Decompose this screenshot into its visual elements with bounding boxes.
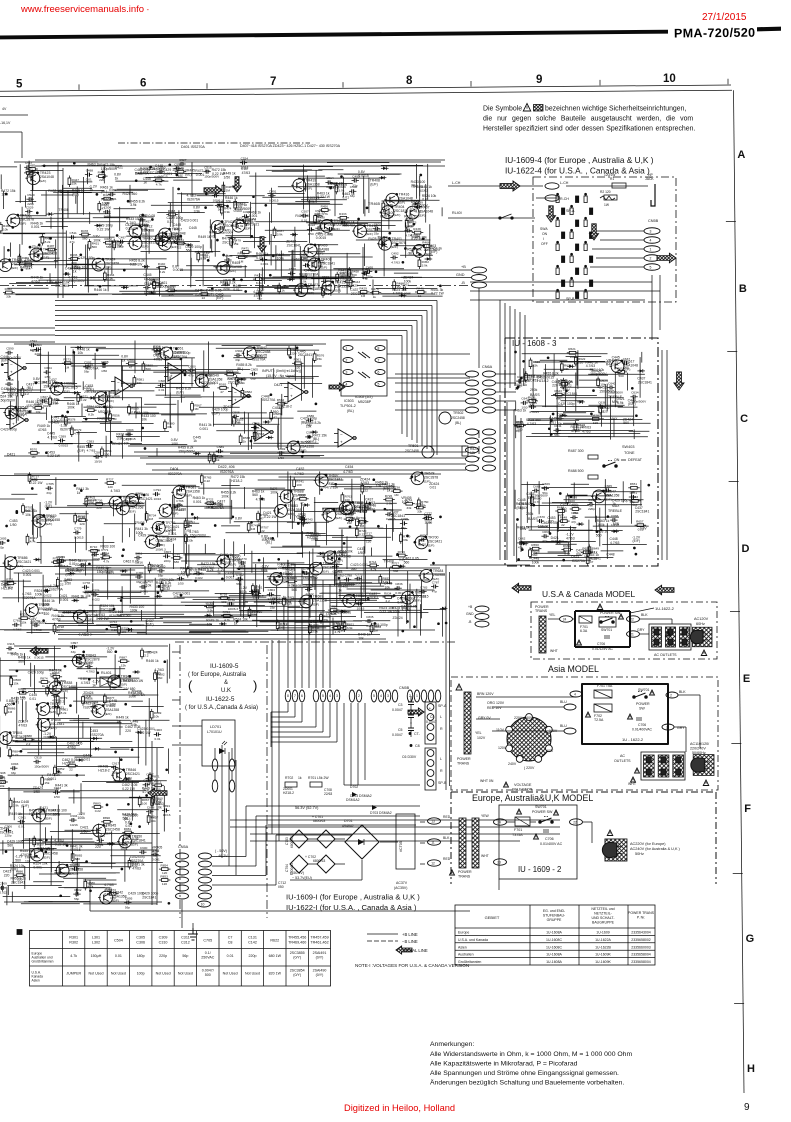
wire	[105, 393, 107, 431]
ruler tick	[206, 83, 208, 89]
wire	[109, 420, 111, 456]
diode D673	[611, 530, 619, 534]
junction	[301, 455, 303, 457]
wire	[532, 433, 561, 435]
wire	[155, 387, 209, 389]
svg-text:1M: 1M	[239, 259, 244, 263]
svg-text:R561: R561	[294, 358, 302, 362]
svg-text:2SC1841: 2SC1841	[148, 171, 162, 175]
svg-text:(E/F): (E/F)	[206, 292, 214, 296]
wire	[102, 536, 104, 550]
svg-text:4.7k: 4.7k	[88, 885, 94, 889]
svg-text:R736: R736	[95, 498, 103, 502]
svg-text:1k: 1k	[585, 554, 589, 558]
wire	[253, 562, 305, 564]
resistor R585 47	[270, 410, 281, 422]
wire	[303, 165, 305, 210]
svg-text:C: C	[740, 413, 748, 425]
wire	[244, 412, 246, 434]
wire	[295, 200, 329, 202]
svg-text:(BL): (BL)	[347, 409, 354, 413]
junction	[552, 413, 554, 415]
svg-text:HZ18-2: HZ18-2	[252, 595, 263, 599]
wire	[310, 222, 368, 224]
wire	[325, 599, 377, 601]
svg-text:C501: C501	[374, 223, 382, 227]
op-amp IC501	[338, 429, 353, 447]
resistor R579 4.7k	[70, 426, 81, 438]
wire	[496, 409, 516, 411]
wire	[173, 544, 175, 569]
switch contact	[584, 292, 587, 299]
svg-text:C601: C601	[35, 343, 43, 347]
connector pin	[483, 380, 496, 386]
svg-text:C787: C787	[432, 580, 440, 584]
wire	[604, 384, 606, 408]
svg-text:+6.3V: +6.3V	[30, 349, 40, 353]
svg-text:bezeichnen wichtige Sicherheit: bezeichnen wichtige Sicherheitseinrichtu…	[545, 106, 686, 113]
connector pin	[466, 447, 479, 453]
junction	[104, 406, 106, 408]
wire	[254, 225, 256, 249]
section tick	[727, 351, 737, 353]
junction	[73, 351, 75, 353]
resistor R476 1k	[370, 287, 382, 299]
svg-text:47/63: 47/63	[31, 279, 40, 283]
switch contact	[590, 280, 593, 287]
wire	[75, 195, 77, 203]
svg-text:MAX: MAX	[610, 417, 618, 421]
junction	[402, 630, 404, 632]
capacitor C493 33p	[352, 174, 360, 187]
svg-text:R749: R749	[206, 601, 214, 605]
svg-text:C910: C910	[34, 756, 42, 760]
wire	[54, 260, 78, 262]
svg-text:BASS: BASS	[528, 517, 538, 521]
wire	[614, 372, 616, 407]
hollow arrow top block	[204, 186, 222, 195]
frame top line	[0, 90, 732, 96]
resistor R713 0.22	[365, 501, 376, 512]
wire	[258, 479, 344, 481]
svg-text:(BL): (BL)	[27, 386, 33, 390]
wire	[85, 590, 168, 592]
svg-text:3.9k: 3.9k	[301, 280, 307, 284]
svg-text:C892: C892	[73, 863, 81, 867]
capacitor C590 150p/500V	[5, 347, 22, 360]
wire	[190, 258, 192, 276]
junction	[29, 411, 31, 413]
svg-text:(E/F): (E/F)	[43, 856, 50, 860]
junction	[142, 427, 144, 429]
wire	[177, 193, 226, 195]
junction	[113, 608, 115, 610]
svg-text:OFF: OFF	[541, 242, 548, 246]
svg-text:1/50: 1/50	[605, 493, 611, 497]
capacitor C664 47p	[570, 511, 578, 524]
wire	[151, 204, 214, 206]
resistor R471 680	[240, 246, 252, 258]
resistor R478 560	[79, 229, 91, 241]
svg-text:Digitized in Heiloo, Holland: Digitized in Heiloo, Holland	[344, 1103, 455, 1113]
svg-text:3.9k: 3.9k	[238, 224, 244, 228]
svg-text:(BL): (BL)	[203, 255, 209, 259]
wire	[301, 256, 373, 258]
wire	[361, 230, 413, 232]
wire	[47, 352, 49, 388]
wire	[233, 357, 266, 359]
resistor R463 1M	[236, 252, 248, 264]
wire	[0, 166, 17, 168]
board boundary dash-dot mid	[0, 285, 471, 287]
svg-text:+: +	[257, 434, 260, 439]
switch contact	[570, 208, 573, 215]
svg-text:33k: 33k	[421, 503, 426, 507]
wire bus	[55, 315, 422, 317]
svg-text:(E/F): (E/F)	[216, 296, 224, 300]
svg-text:(BL): (BL)	[301, 420, 307, 424]
wire	[527, 419, 579, 421]
wire bus	[55, 330, 407, 332]
wire	[163, 622, 192, 624]
svg-text:100: 100	[104, 452, 109, 456]
wire	[162, 590, 210, 592]
wire	[181, 505, 232, 507]
capacitor C790 1/50	[419, 533, 427, 546]
wire	[72, 349, 74, 385]
svg-text:1/50: 1/50	[144, 290, 150, 294]
connector pin	[466, 389, 479, 395]
svg-text:47/63: 47/63	[571, 429, 580, 433]
wire	[280, 251, 282, 278]
section tick	[730, 611, 740, 613]
wire	[344, 173, 400, 175]
svg-text:0.01: 0.01	[217, 454, 223, 458]
svg-text:(E/F): (E/F)	[307, 291, 314, 295]
junction	[547, 357, 549, 359]
switch contact	[562, 256, 565, 263]
svg-text:TR408: TR408	[134, 521, 144, 525]
svg-text:GND: GND	[466, 612, 474, 616]
svg-text:8.2k: 8.2k	[564, 552, 570, 556]
svg-text:47p: 47p	[70, 240, 75, 244]
wire	[181, 560, 225, 562]
capacitor C768 100/6.3	[92, 548, 103, 561]
wire	[4, 554, 6, 587]
wire	[22, 580, 24, 617]
svg-text:C905: C905	[97, 834, 105, 838]
wire	[223, 598, 310, 600]
svg-text:6: 6	[140, 77, 146, 89]
wire	[640, 480, 642, 506]
svg-text:1/50: 1/50	[358, 551, 365, 555]
wire	[129, 568, 131, 604]
capacitor C591 10/16	[29, 339, 38, 352]
ruler tick	[727, 79, 729, 85]
svg-text:TLP501-2: TLP501-2	[340, 404, 356, 408]
power feed +B	[180, 269, 471, 271]
wire	[419, 188, 421, 203]
svg-text:(E/F): (E/F)	[1, 359, 9, 363]
svg-text:1M: 1M	[149, 517, 154, 521]
svg-text:10k: 10k	[146, 583, 152, 587]
svg-text:C593: C593	[87, 439, 95, 443]
wire	[563, 412, 586, 414]
junction	[122, 555, 124, 557]
svg-text:0.001: 0.001	[542, 525, 551, 529]
wire	[203, 350, 205, 391]
wire	[264, 586, 311, 588]
resistor R446 33k	[314, 258, 325, 270]
svg-text:Die Symbole: Die Symbole	[483, 106, 522, 113]
svg-text:0.001: 0.001	[168, 532, 177, 536]
wire	[401, 276, 422, 278]
diode D825	[120, 569, 128, 573]
svg-text:0.22: 0.22	[359, 532, 365, 536]
wire	[169, 376, 171, 422]
wire	[538, 481, 540, 514]
svg-text:R463 1k: R463 1k	[88, 162, 101, 166]
svg-text:(E/F): (E/F)	[142, 244, 149, 248]
svg-text:VR405: VR405	[295, 515, 305, 519]
connector pin 1	[644, 246, 660, 253]
switch contact	[584, 220, 587, 227]
junction	[414, 247, 416, 249]
junction	[214, 525, 216, 527]
wire	[346, 253, 348, 294]
wire	[189, 631, 249, 633]
resistor R704 8.2k	[286, 576, 298, 588]
wire	[633, 397, 635, 426]
wire	[18, 573, 20, 603]
svg-text:D401 ISS270A: D401 ISS270A	[181, 145, 205, 149]
svg-text:4: 4	[346, 383, 348, 387]
svg-text:4.7/63: 4.7/63	[610, 541, 620, 545]
wire	[344, 488, 396, 490]
svg-text:C777: C777	[425, 511, 433, 515]
junction	[378, 525, 380, 527]
wire	[275, 245, 277, 269]
junction	[315, 403, 317, 405]
svg-text:C506: C506	[104, 206, 112, 210]
switch contact	[576, 244, 579, 251]
junction	[207, 260, 209, 262]
wire	[122, 434, 124, 458]
svg-text:C804: C804	[268, 588, 276, 592]
capacitor C597 100/6.3	[305, 431, 316, 444]
svg-text:IS2076A: IS2076A	[23, 596, 37, 600]
svg-text:10k: 10k	[157, 355, 163, 359]
wire	[109, 209, 111, 238]
resistor R426 120	[101, 193, 113, 205]
svg-text:47: 47	[129, 366, 133, 370]
wire	[283, 605, 285, 631]
capacitor C601 220p	[34, 343, 42, 356]
diode D531	[425, 257, 433, 261]
wire	[37, 528, 39, 538]
wire	[375, 502, 397, 504]
resistor R648 22	[558, 516, 570, 528]
svg-text:C514: C514	[326, 176, 334, 180]
wire	[189, 623, 212, 625]
wire	[297, 552, 346, 554]
wire	[387, 353, 470, 355]
connector pin	[483, 398, 496, 404]
connector pin	[475, 606, 489, 612]
resistor R764 1M	[357, 516, 369, 528]
supply rail bottom	[4, 293, 435, 295]
wire	[273, 368, 275, 379]
svg-text:C896: C896	[86, 660, 94, 664]
capacitor C602 1/50	[277, 447, 285, 460]
svg-text:R441 3k: R441 3k	[72, 595, 85, 599]
junction	[233, 279, 235, 281]
wire	[266, 169, 322, 171]
wire	[557, 512, 559, 532]
svg-text:C903: C903	[155, 728, 163, 732]
wire	[25, 196, 27, 208]
wire	[426, 523, 428, 535]
svg-text:8: 8	[378, 347, 380, 351]
junction	[241, 279, 243, 281]
resistor R743 220	[302, 515, 313, 527]
wire	[314, 502, 338, 504]
wire	[92, 358, 180, 360]
wire	[313, 273, 315, 291]
svg-text:C784: C784	[185, 520, 193, 524]
svg-text:10k: 10k	[318, 214, 324, 218]
svg-text:150p/500V: 150p/500V	[52, 419, 69, 423]
wire	[303, 585, 384, 587]
junction	[517, 519, 519, 521]
wire	[557, 412, 559, 435]
svg-text:MAX: MAX	[612, 504, 620, 508]
wire	[553, 432, 640, 434]
wire	[67, 505, 145, 507]
wire	[240, 610, 325, 612]
junction	[158, 586, 160, 588]
svg-text:3.9k: 3.9k	[422, 263, 428, 267]
svg-text:(E/F): (E/F)	[172, 512, 179, 516]
wire	[376, 288, 437, 290]
capacitor C637 1/50	[622, 357, 630, 370]
opto IC503 TLP501-2 box	[341, 340, 387, 396]
wire	[270, 234, 272, 265]
svg-text:0.001: 0.001	[60, 598, 69, 602]
svg-text:4.7/63: 4.7/63	[393, 292, 403, 296]
left bus	[57, 162, 59, 298]
svg-text:10k: 10k	[322, 512, 328, 516]
svg-text:1k: 1k	[104, 824, 108, 828]
junction	[37, 255, 39, 257]
capacitor C781 4.7/63	[12, 619, 22, 632]
svg-text:0.022: 0.022	[306, 592, 314, 596]
svg-text:0.01: 0.01	[261, 568, 268, 572]
svg-text:die nur gegen solche Bauteile: die nur gegen solche Bauteile ausgetausc…	[483, 116, 693, 123]
svg-text:33k: 33k	[318, 264, 323, 268]
resistor R562 120	[275, 398, 287, 410]
wire	[266, 344, 313, 346]
svg-text:1/50: 1/50	[10, 523, 17, 527]
svg-text:22: 22	[561, 523, 565, 527]
capacitor C511 47p	[69, 231, 77, 244]
svg-text:C895: C895	[125, 896, 133, 900]
wire	[399, 239, 431, 241]
svg-text:3: 3	[346, 371, 348, 375]
connector pin R-CH	[545, 195, 559, 201]
svg-text:IS2076A: IS2076A	[174, 355, 188, 359]
svg-text:10k: 10k	[141, 418, 147, 422]
wire	[556, 406, 558, 420]
svg-text:10/16: 10/16	[357, 606, 365, 610]
wire	[256, 365, 321, 367]
svg-text:HZ18-2: HZ18-2	[1, 586, 12, 590]
svg-text:15k: 15k	[21, 620, 26, 624]
wire	[257, 589, 259, 599]
svg-text:220p: 220p	[112, 770, 119, 774]
svg-text:560: 560	[15, 858, 21, 862]
wire	[274, 287, 312, 289]
svg-text:10k: 10k	[137, 381, 142, 385]
capacitor C515 150p/500V	[203, 166, 220, 179]
capacitor C489 0.001	[108, 188, 117, 201]
wire	[282, 566, 315, 568]
svg-text:1: 1	[650, 248, 652, 252]
svg-text:C606: C606	[159, 379, 167, 383]
junction	[591, 413, 593, 415]
wire	[524, 374, 608, 376]
junction	[237, 380, 239, 382]
svg-text:100/6.3: 100/6.3	[178, 492, 189, 496]
wire bus drop	[436, 301, 438, 456]
svg-text:120: 120	[366, 539, 371, 543]
wire	[168, 202, 249, 204]
svg-text:2.2: 2.2	[424, 248, 429, 252]
capacitor C510 0.0015	[157, 166, 168, 179]
svg-text:0.8V: 0.8V	[235, 517, 243, 521]
amplifier block border top	[35, 159, 445, 161]
svg-text:56p: 56p	[554, 433, 559, 437]
wire	[180, 486, 200, 488]
svg-text:3.9k: 3.9k	[224, 210, 230, 214]
svg-text:(E/F): (E/F)	[195, 292, 203, 296]
junction	[80, 254, 82, 256]
wire	[395, 373, 466, 375]
wire	[238, 256, 257, 258]
wire	[145, 176, 187, 178]
wire	[395, 382, 466, 384]
svg-text:10k: 10k	[306, 425, 312, 429]
svg-text:C662: C662	[518, 537, 526, 541]
safety note text	[483, 106, 695, 133]
junction	[296, 294, 298, 296]
wire	[287, 521, 329, 523]
wire	[542, 405, 623, 407]
svg-text:10k: 10k	[358, 637, 364, 641]
junction	[150, 166, 152, 168]
transistor TR617	[610, 359, 639, 372]
svg-text:R-CH: R-CH	[560, 197, 569, 201]
header bar right segment	[757, 27, 781, 32]
svg-text:BASS: BASS	[530, 393, 540, 397]
svg-text:C776: C776	[155, 539, 163, 543]
wire	[526, 482, 528, 513]
svg-text:100/6.3: 100/6.3	[322, 284, 333, 288]
wire	[357, 221, 359, 236]
wire	[546, 541, 568, 543]
wire	[37, 541, 115, 543]
svg-text:0.01: 0.01	[422, 198, 429, 202]
